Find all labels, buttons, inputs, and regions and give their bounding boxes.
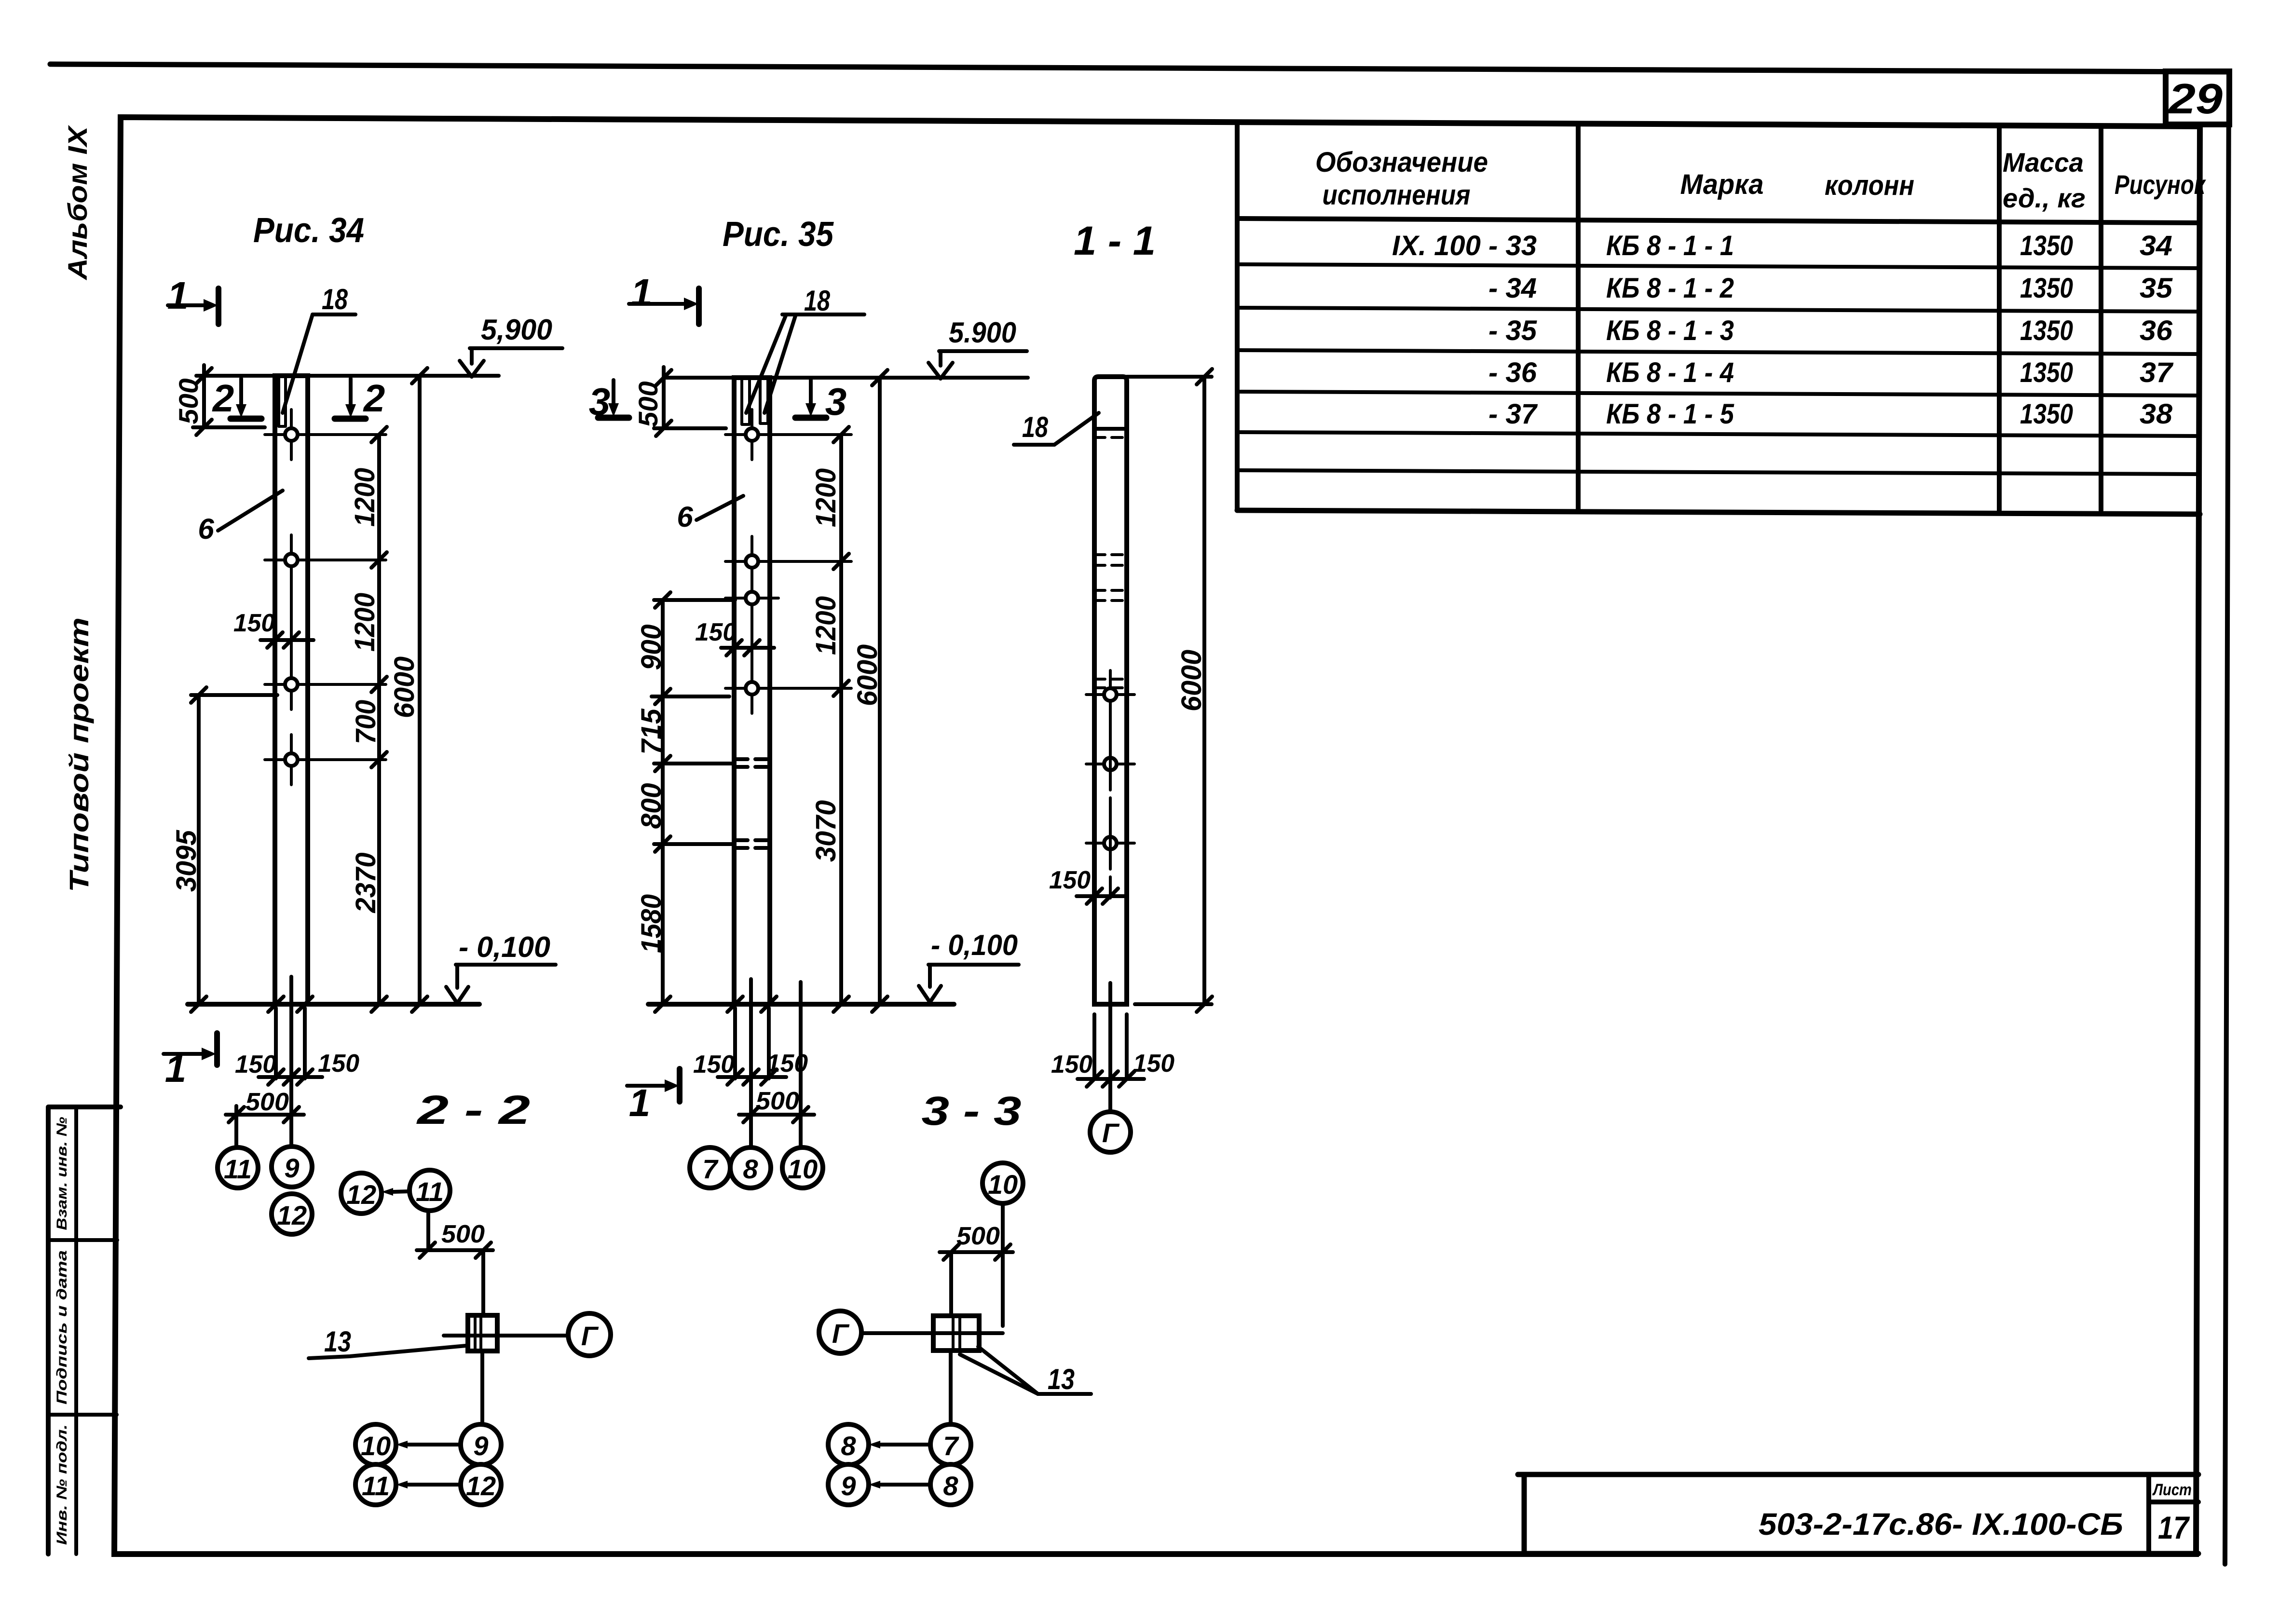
section mark 1 top tick: [696, 288, 702, 324]
grid marker G 3-3: [819, 1311, 861, 1353]
dim 150 bottom ticks: [1087, 1071, 1134, 1087]
svg-text:5.900: 5.900: [949, 316, 1016, 349]
table row line 5: [1237, 432, 2200, 436]
table column line after designation: [1576, 123, 1581, 510]
svg-text:КБ 8 - 1 - 4: КБ 8 - 1 - 4: [1606, 357, 1734, 388]
part marker circle 12: [272, 1194, 312, 1234]
dim 6000 tick bottom: [412, 996, 427, 1012]
dim 500 bottom line: [739, 1113, 814, 1117]
hole f1: [725, 409, 851, 460]
svg-text:3095: 3095: [171, 830, 202, 892]
dim 150 bottom line: [259, 1075, 322, 1079]
svg-text:150: 150: [233, 609, 275, 637]
column section square 13: [468, 1315, 497, 1351]
left stamp column divider vertical: [74, 1107, 78, 1554]
label 18 leader b: [764, 314, 796, 413]
column lower extension right: [1125, 1014, 1129, 1079]
title block outline: [1518, 1474, 2198, 1554]
svg-text:- 34: - 34: [1488, 273, 1537, 304]
elevation 5,900 underline: [470, 346, 562, 350]
svg-text:КБ 8 - 1 - 5: КБ 8 - 1 - 5: [1606, 398, 1734, 430]
label 13 leader b: [960, 1354, 1038, 1394]
label 18 underline: [782, 313, 864, 316]
left stamp row line 2: [48, 1413, 117, 1417]
svg-text:12: 12: [346, 1179, 376, 1210]
part marker circle 12 low: [461, 1464, 501, 1505]
dim 150 mid tick b: [284, 632, 299, 648]
svg-text:10: 10: [788, 1154, 818, 1184]
svg-text:- 37: - 37: [1488, 398, 1538, 430]
dim 500 tick top: [196, 368, 212, 383]
TITLEBLOCK: [1518, 1474, 2198, 1554]
svg-text:Подпись и дата: Подпись и дата: [54, 1250, 70, 1405]
part marker circle 9: [272, 1146, 312, 1187]
svg-text:1: 1: [631, 271, 653, 314]
extension line to marker 10: [799, 982, 803, 1147]
extension to marker 11: [234, 1106, 238, 1147]
dim 6000 ticks: [1197, 369, 1212, 1012]
svg-text:6: 6: [198, 513, 214, 545]
svg-text:150: 150: [1133, 1050, 1174, 1078]
svg-text:1350: 1350: [2020, 230, 2073, 261]
hole h2: [265, 535, 386, 585]
dim 500 tick bottom: [196, 420, 212, 435]
svg-text:38: 38: [2140, 398, 2173, 430]
svg-text:- 36: - 36: [1488, 357, 1537, 388]
section mark 1 bottom arrow: [164, 1052, 202, 1056]
part marker circle 10 low: [355, 1424, 396, 1465]
svg-text:36: 36: [2140, 315, 2173, 346]
hole s3: [1086, 819, 1134, 867]
grid marker G under 1-1: [1090, 1112, 1131, 1152]
svg-text:3: 3: [825, 380, 847, 423]
label 6 leader: [218, 491, 283, 531]
svg-text:8: 8: [943, 1471, 958, 1501]
column lower extension left: [274, 1008, 278, 1078]
joint line dashed: [1094, 436, 1127, 439]
dim 150 mid ticks: [726, 640, 760, 655]
extension below square: [949, 1351, 953, 1424]
svg-text:37: 37: [2140, 357, 2174, 388]
DETAIL22: [309, 1087, 611, 1505]
svg-text:9: 9: [841, 1471, 856, 1501]
label 18 leader: [283, 314, 313, 413]
svg-text:Обозначение: Обозначение: [1315, 147, 1488, 178]
svg-text:6000: 6000: [1176, 650, 1207, 711]
dim 150 bottom ticks: [727, 1069, 777, 1085]
svg-text:1200: 1200: [810, 468, 842, 527]
svg-text:18: 18: [322, 283, 348, 315]
svg-text:11: 11: [416, 1176, 444, 1207]
table row line 3: [1237, 350, 2200, 354]
TABLE: [1237, 122, 2206, 514]
dim 150 mid tick a: [267, 632, 283, 648]
svg-text:150: 150: [1049, 866, 1091, 894]
column lower axis: [1108, 983, 1112, 1114]
svg-text:1200: 1200: [810, 596, 842, 655]
hidden joint line at 1750: [654, 842, 734, 846]
section mark 2 left bar: [231, 416, 261, 422]
section mark 3 right arrow: [809, 380, 813, 404]
extension from 11 down: [426, 1211, 430, 1250]
label 13 leader: [309, 1346, 466, 1358]
table column line after mass: [2099, 126, 2103, 510]
column groove line a: [277, 377, 280, 426]
weld arrow 12-11: [393, 1191, 409, 1192]
svg-text:исполнения: исполнения: [1323, 179, 1471, 211]
part marker circle 11: [218, 1147, 258, 1188]
dim 500 bottom ticks: [229, 1107, 299, 1122]
svg-text:35: 35: [2140, 273, 2173, 304]
table row line 1: [1237, 264, 2200, 268]
dim 500 bottom extension line: [193, 425, 265, 429]
dim 500 bottom extension: [654, 426, 726, 430]
svg-text:Взам. инв. №: Взам. инв. №: [54, 1117, 70, 1230]
svg-text:10: 10: [988, 1169, 1018, 1200]
dim 6000 tick top: [412, 368, 427, 383]
column lower extension left: [733, 1008, 737, 1078]
bottom tick at chain: [371, 996, 387, 1012]
hole h3: [265, 659, 386, 710]
svg-text:3070: 3070: [810, 800, 842, 862]
svg-text:Г: Г: [581, 1321, 599, 1351]
dim 500 line: [662, 367, 666, 428]
top extension to 6000: [1127, 375, 1212, 379]
svg-text:Рис. 34: Рис. 34: [253, 211, 364, 250]
dim 150 ticks: [1087, 888, 1118, 904]
label 13 leader a: [978, 1347, 1038, 1394]
svg-text:ед., кг: ед., кг: [2003, 183, 2086, 213]
bottom ticks at column edges: [268, 996, 313, 1012]
svg-text:11: 11: [362, 1471, 390, 1501]
svg-text:Г: Г: [1102, 1118, 1120, 1148]
svg-text:13: 13: [324, 1325, 351, 1358]
dim 500 detail ticks: [943, 1244, 1010, 1260]
svg-text:1350: 1350: [2020, 357, 2073, 388]
title block list cell divider: [2149, 1474, 2198, 1554]
dim 6000 line: [878, 378, 882, 1004]
section mark 1 bottom arrow: [627, 1084, 665, 1088]
extension from 10 down: [1001, 1203, 1005, 1326]
hole h4: [265, 735, 386, 785]
elevation 5,900 arrow: [460, 348, 484, 377]
svg-text:5,900: 5,900: [481, 314, 552, 346]
top horizontal rule: [50, 64, 2229, 72]
square groove lines: [953, 1316, 960, 1351]
svg-text:700: 700: [350, 700, 382, 744]
hidden pair c: [1094, 679, 1127, 688]
part marker circle 12 pair-top: [341, 1173, 382, 1214]
table row line 2: [1237, 308, 2200, 312]
section mark 2 left arrow: [239, 379, 243, 405]
dim 500 detail line: [417, 1248, 493, 1252]
left chain line: [661, 600, 665, 1004]
hole axis segment: [751, 623, 753, 663]
svg-text:2370: 2370: [350, 853, 382, 914]
svg-text:6000: 6000: [389, 656, 420, 718]
top level line: [664, 376, 1028, 380]
section mark 1 bottom tick: [214, 1033, 220, 1065]
dim 6000 line: [418, 376, 422, 1004]
dim 6000 line: [1202, 377, 1206, 1004]
square groove lines: [475, 1315, 481, 1351]
svg-text:КБ 8 - 1 - 2: КБ 8 - 1 - 2: [1606, 273, 1734, 304]
svg-text:1: 1: [629, 1081, 651, 1124]
section mark 2 right arrow: [349, 379, 353, 405]
column lower axis line: [749, 979, 753, 1147]
hole axis dash-dot: [1109, 719, 1112, 903]
label 13 underline: [1038, 1392, 1091, 1396]
dim 500 detail line: [940, 1250, 1013, 1254]
elevation -0,100 arrow: [446, 965, 468, 1003]
bottom ticks at column edges: [727, 996, 777, 1012]
section mark 3 left bar: [598, 415, 629, 421]
svg-text:500: 500: [756, 1087, 799, 1115]
section mark 1 bottom tick: [677, 1069, 682, 1102]
table header bottom line: [1237, 218, 2200, 223]
svg-text:29: 29: [2168, 75, 2223, 123]
svg-text:1580: 1580: [636, 894, 667, 953]
section mark 1 top tick: [216, 288, 221, 324]
leader from G to square: [861, 1331, 1003, 1335]
dim 150 bottom ticks: [268, 1069, 313, 1085]
label 18 underline: [313, 313, 355, 316]
svg-text:150: 150: [235, 1051, 276, 1078]
dim 150 mid line: [260, 638, 314, 642]
svg-text:Масса: Масса: [2003, 147, 2084, 177]
svg-text:150: 150: [318, 1050, 359, 1078]
svg-text:150: 150: [695, 618, 737, 646]
svg-text:1: 1: [167, 274, 189, 317]
part marker circle 10 top: [983, 1163, 1023, 1203]
svg-text:13: 13: [1048, 1363, 1075, 1395]
label 18 leader a: [746, 314, 786, 413]
svg-text:11: 11: [224, 1154, 252, 1184]
dim 150 mid line: [721, 646, 774, 650]
dim 500 detail ticks: [420, 1242, 491, 1258]
dim 150 bottom line: [1078, 1077, 1144, 1081]
svg-text:12: 12: [277, 1200, 307, 1230]
svg-text:9: 9: [284, 1153, 299, 1183]
svg-text:Рис. 35: Рис. 35: [723, 215, 834, 254]
column lower extension left: [1092, 1014, 1096, 1079]
part marker circle 8: [730, 1147, 771, 1188]
svg-text:колонн: колонн: [1825, 170, 1914, 201]
svg-text:503-2-17с.86- IX.100-СБ: 503-2-17с.86- IX.100-СБ: [1759, 1507, 2123, 1542]
FIG35: [589, 215, 1028, 1188]
part marker circle 8b low: [930, 1464, 971, 1505]
column section square 13: [933, 1316, 979, 1351]
left stamp column outer border: [48, 1107, 121, 1554]
dim 150 bottom line: [718, 1075, 786, 1079]
label 18 underline: [1014, 443, 1054, 447]
elevation -0,100 underline: [456, 963, 556, 967]
svg-text:7: 7: [943, 1431, 959, 1461]
svg-text:7: 7: [702, 1154, 719, 1184]
svg-text:КБ 8 - 1 - 3: КБ 8 - 1 - 3: [1606, 315, 1734, 346]
part marker circle 7 low: [930, 1424, 971, 1465]
part marker circle 9 low: [828, 1464, 869, 1505]
svg-text:18: 18: [1022, 411, 1049, 443]
section mark 1 top arrow: [168, 303, 204, 307]
dim 500 bottom line: [226, 1113, 304, 1117]
svg-text:500: 500: [956, 1222, 1000, 1250]
svg-text:6: 6: [677, 501, 693, 533]
hole axis segment: [290, 585, 293, 659]
svg-text:10: 10: [361, 1431, 391, 1461]
hole f4: [725, 663, 851, 713]
svg-text:КБ 8 - 1 - 1: КБ 8 - 1 - 1: [1606, 230, 1734, 261]
svg-text:1350: 1350: [2020, 273, 2073, 304]
left chain extension at 1244: [654, 598, 735, 602]
hidden joint line at 1583: [654, 762, 734, 765]
hole f3: [725, 573, 778, 623]
column body fig34: [275, 376, 308, 1004]
column lower extension right: [303, 1008, 307, 1078]
extension to section square: [481, 1250, 485, 1315]
svg-text:- 0,100: - 0,100: [459, 931, 550, 963]
svg-text:Лист: Лист: [2152, 1481, 2192, 1499]
column body fig35: [734, 378, 770, 1004]
table bottom line: [1237, 510, 2200, 514]
svg-text:1350: 1350: [2020, 398, 2073, 430]
svg-text:IX. 100 - 33: IX. 100 - 33: [1392, 230, 1537, 261]
column groove line b: [279, 377, 286, 426]
column groove 2 lines: [760, 379, 768, 423]
left stamp row line 1: [48, 1238, 117, 1242]
hidden pair a: [1094, 555, 1127, 565]
section mark 2 right bar: [335, 416, 366, 422]
bottom level line: [188, 1002, 479, 1007]
svg-text:150: 150: [1051, 1051, 1092, 1078]
section mark 3 right bar: [795, 415, 826, 421]
svg-text:34: 34: [2140, 230, 2172, 261]
svg-text:Марка: Марка: [1680, 169, 1764, 200]
column groove 1 lines: [742, 379, 750, 424]
svg-text:150: 150: [693, 1051, 735, 1078]
svg-text:- 35: - 35: [1488, 315, 1537, 346]
svg-text:900: 900: [636, 625, 667, 670]
table row line 4: [1237, 392, 2200, 396]
svg-text:2: 2: [212, 377, 234, 420]
label 18 leader: [1054, 413, 1099, 445]
FIG11: [1014, 218, 1212, 1152]
svg-text:500: 500: [633, 382, 663, 427]
svg-text:12: 12: [466, 1471, 496, 1501]
hidden pair b: [1094, 590, 1127, 600]
svg-text:500: 500: [173, 379, 204, 424]
right chain line: [839, 435, 843, 1004]
part marker circle 11 low: [355, 1464, 396, 1505]
svg-text:800: 800: [636, 783, 667, 829]
dim 500 bottom ticks: [743, 1107, 808, 1122]
column body section 1-1: [1094, 377, 1127, 1004]
svg-text:9: 9: [473, 1431, 488, 1461]
part marker circle 9 low: [461, 1424, 501, 1465]
elevation 5.900 arrow: [928, 351, 953, 379]
hole s2: [1086, 740, 1134, 788]
svg-text:- 0,100: - 0,100: [931, 929, 1018, 961]
svg-text:500: 500: [246, 1088, 289, 1116]
dim 3095 line: [197, 695, 201, 1004]
weld arrow 9-8: [880, 1483, 930, 1487]
svg-text:Типовой проект: Типовой проект: [64, 617, 94, 892]
table column line after mark: [1997, 125, 2002, 510]
elevation -0,100 arrow: [919, 965, 941, 1002]
bottom level line: [648, 1002, 954, 1007]
hole s1: [1086, 670, 1134, 719]
part marker circle 7: [690, 1147, 730, 1188]
elevation 5.900 underline: [939, 349, 1027, 353]
dim chain line right: [377, 435, 381, 1004]
svg-text:1200: 1200: [349, 468, 381, 527]
joint line solid: [1094, 427, 1127, 431]
square mid line: [468, 1334, 497, 1337]
dim 150 line: [1077, 894, 1125, 898]
label 6 leader: [696, 496, 743, 520]
weld arrow 8-7: [880, 1443, 930, 1447]
part marker circle 10: [782, 1147, 823, 1188]
svg-text:2 - 2: 2 - 2: [416, 1087, 530, 1133]
column lower extension right: [767, 1008, 771, 1078]
section mark 3 left arrow: [612, 380, 615, 404]
svg-text:Г: Г: [832, 1318, 850, 1349]
svg-text:715: 715: [636, 709, 667, 755]
part marker circle 8 low: [828, 1424, 869, 1465]
bottom extension to 6000: [1135, 1002, 1212, 1006]
dim 6000 ticks: [872, 370, 887, 1012]
dim 3095 extension line: [191, 693, 277, 697]
svg-text:8: 8: [743, 1154, 758, 1184]
svg-text:Рисунок: Рисунок: [2115, 169, 2206, 200]
hole f2: [725, 536, 851, 587]
svg-text:1350: 1350: [2020, 315, 2073, 346]
svg-text:1 - 1: 1 - 1: [1074, 218, 1156, 263]
FIG34: [164, 211, 562, 1234]
svg-text:Инв. № подл.: Инв. № подл.: [54, 1424, 70, 1545]
extension to section square: [949, 1252, 953, 1315]
weld arrow 10-9: [408, 1443, 461, 1447]
svg-text:6000: 6000: [852, 644, 883, 706]
column lower axis line: [289, 977, 293, 1146]
svg-text:17: 17: [2158, 1510, 2190, 1545]
svg-text:8: 8: [841, 1431, 856, 1461]
weld arrow 11-12: [408, 1483, 461, 1487]
svg-text:1200: 1200: [349, 593, 381, 652]
left chain extension at 1444: [652, 695, 729, 698]
top level line: [196, 374, 499, 378]
hole h1: [265, 409, 386, 460]
grid marker G 2-2: [568, 1313, 611, 1356]
svg-text:3 - 3: 3 - 3: [922, 1088, 1022, 1133]
dim 500 ticks: [656, 370, 671, 436]
dim 500 line: [202, 365, 206, 427]
svg-text:Альбом IX: Альбом IX: [62, 124, 93, 281]
page number box: [2166, 71, 2229, 124]
svg-text:500: 500: [441, 1220, 485, 1248]
svg-text:18: 18: [804, 285, 831, 317]
dim 3095 tick top: [191, 687, 206, 703]
section mark 1 top arrow: [629, 302, 684, 306]
left chain ticks: [655, 592, 670, 1012]
table row line 6: [1237, 470, 2200, 474]
elevation -0,100 underline: [928, 963, 1019, 967]
leader to grid G: [444, 1334, 568, 1337]
svg-text:2: 2: [363, 377, 385, 420]
table left border: [1235, 122, 1240, 510]
dim 3095 tick bottom: [191, 996, 206, 1012]
DETAIL33: [819, 1088, 1091, 1505]
